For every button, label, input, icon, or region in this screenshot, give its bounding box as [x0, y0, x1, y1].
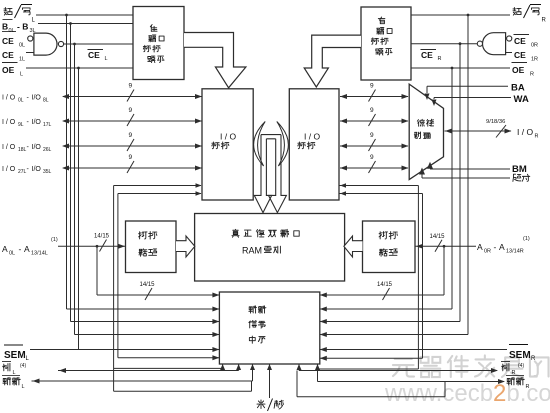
wire row 3 into arbiter right — [320, 321, 460, 323]
center channel top band — [261, 135, 281, 139]
svg-text:14/15: 14/15 — [430, 234, 446, 240]
svg-text:14/15: 14/15 — [94, 234, 110, 240]
svg-text:I/O: I/O — [32, 166, 42, 173]
svg-text:R: R — [535, 134, 539, 140]
svg-text:1R: 1R — [531, 57, 538, 63]
hollow arrow left control to left I/O — [184, 33, 246, 88]
wire A right bus — [415, 245, 476, 247]
wire busy feed into left I/O lower — [118, 193, 201, 195]
right I/O control block — [289, 89, 339, 200]
wire BUSY R — [299, 370, 497, 372]
hollow arrow right control to right I/O — [304, 35, 361, 87]
wire row 4 into arbiter left — [75, 334, 220, 336]
left I/O control block — [202, 89, 253, 200]
wire bottom rail 1 — [114, 390, 252, 392]
svg-text:R: R — [438, 56, 442, 62]
wire INT L riser into arbiter bottom — [252, 364, 254, 381]
svg-text:9: 9 — [370, 154, 374, 161]
svg-text:1L: 1L — [19, 57, 25, 63]
svg-text:17L: 17L — [43, 122, 52, 128]
wire B0L-B3L — [38, 23, 133, 25]
wire CE1L into gate — [26, 52, 34, 54]
svg-text:B: B — [2, 22, 8, 32]
svg-text:9: 9 — [370, 132, 374, 139]
wire rail riser from INT R — [444, 382, 446, 397]
svg-text:26L: 26L — [43, 147, 52, 153]
interrupt signal arbitration block — [219, 292, 319, 364]
svg-text:9: 9 — [129, 132, 133, 139]
svg-text:SEM: SEM — [509, 350, 531, 361]
wire I/O18L-I/O26L bus — [63, 145, 202, 147]
R/W-bar R label — [513, 7, 521, 15]
wire M/S into arbiter bottom — [269, 364, 271, 398]
wire CE-bar L from gate to left control — [64, 43, 133, 45]
svg-text:R: R — [542, 18, 547, 24]
wire CE1R into gate — [506, 52, 512, 54]
svg-text:13/14R: 13/14R — [506, 249, 524, 255]
wire INT R riser into arbiter bottom — [317, 364, 319, 382]
svg-text:0L: 0L — [18, 98, 24, 104]
wire vertical CE L drop — [74, 44, 76, 335]
svg-text:I/O: I/O — [32, 144, 42, 151]
svg-text:I / O: I / O — [2, 144, 16, 151]
svg-text:14/15: 14/15 — [140, 282, 156, 288]
wire right I/O bus row 4 — [340, 167, 408, 169]
wire BUSY L riser into arbiter bottom — [238, 364, 240, 371]
left address decode block — [126, 221, 177, 273]
wire vertical R/W R drop — [467, 15, 469, 335]
wire right wrap row lower to arbiter bottom corner — [318, 368, 419, 370]
svg-text:L: L — [105, 56, 108, 62]
wire vertical OE L drop — [78, 68, 80, 350]
left port control logic block — [133, 7, 184, 80]
wire CE-bar R from gate to right control — [411, 43, 477, 45]
svg-text:WA: WA — [514, 94, 529, 105]
svg-text:A: A — [477, 242, 483, 252]
svg-text:9: 9 — [370, 83, 374, 90]
svg-text:I/O: I/O — [32, 95, 42, 102]
wire vertical OE R drop — [451, 68, 453, 309]
svg-text:A: A — [24, 244, 30, 254]
wire busy feed into left I/O upper — [114, 185, 201, 187]
wire vertical left riser outer — [113, 186, 115, 392]
svg-text:9/18/36: 9/18/36 — [486, 119, 505, 125]
wire right I/O bus row 2 — [340, 120, 408, 122]
svg-text:0L: 0L — [9, 251, 15, 257]
svg-text:13/14L: 13/14L — [31, 251, 48, 257]
wire size — [422, 177, 510, 179]
svg-text:8L: 8L — [43, 98, 49, 104]
svg-text:CE: CE — [514, 50, 526, 60]
svg-text:- B: - B — [17, 22, 28, 32]
wire row 4 into arbiter right — [320, 334, 468, 336]
wire vertical B drop — [70, 24, 72, 322]
right port control logic block — [361, 7, 411, 80]
svg-text:L: L — [20, 72, 23, 78]
svg-text:CE: CE — [514, 36, 526, 46]
wire I/O R with 9/18/36 slash — [445, 130, 512, 132]
svg-text:27L: 27L — [18, 169, 27, 175]
M/S label — [257, 400, 265, 409]
wire vertical right riser outer — [417, 186, 419, 370]
wire SEM L row into arbiter left — [30, 349, 219, 351]
svg-text:CE: CE — [2, 50, 14, 60]
wire row 2 into arbiter left — [67, 308, 220, 310]
wire vertical A L branch — [96, 246, 98, 295]
wire row 2 into arbiter right — [320, 308, 452, 310]
svg-text:I / O: I / O — [517, 127, 533, 137]
wire I/O9L-I/O17L bus — [63, 120, 202, 122]
BUSY L label — [2, 361, 11, 363]
svg-text:I / O: I / O — [220, 132, 236, 142]
wire WA — [434, 97, 511, 99]
svg-text:9: 9 — [370, 107, 374, 114]
svg-text:-: - — [19, 244, 22, 254]
svg-text:0R: 0R — [531, 43, 538, 49]
svg-text:OE: OE — [512, 65, 525, 75]
wire right I/O bus row 1 — [340, 96, 408, 98]
svg-text:A: A — [2, 244, 8, 254]
wire vertical CE R drop — [459, 44, 461, 322]
INT R label — [506, 375, 524, 377]
NAND gate left (CE0L,CE1L) — [34, 33, 57, 55]
hollow arrow right decode to RAM — [344, 236, 363, 257]
wire vertical left riser inner — [117, 194, 119, 358]
svg-text:R: R — [530, 72, 534, 78]
svg-text:(4): (4) — [20, 363, 26, 369]
svg-text:I / O: I / O — [2, 95, 16, 102]
wire right I/O bus row 3 — [340, 145, 408, 147]
wire vertical right riser inner — [422, 194, 424, 359]
wire BUSY L — [58, 370, 239, 372]
svg-text:9: 9 — [129, 107, 133, 114]
wire BM — [430, 168, 510, 170]
wire SEM R row from arbiter right — [320, 349, 507, 351]
svg-text:35L: 35L — [43, 169, 52, 175]
wire vertical R/W L drop — [66, 15, 68, 309]
svg-text:A: A — [499, 242, 505, 252]
svg-text:R: R — [526, 384, 530, 390]
svg-text:9L: 9L — [18, 122, 24, 128]
center hollow down-arrow right channel — [269, 135, 287, 213]
svg-text:CE: CE — [421, 50, 433, 60]
SEM R label — [509, 344, 528, 346]
svg-text:R: R — [531, 356, 536, 362]
svg-text:(1): (1) — [523, 236, 530, 242]
wire address row into arbiter left with 14/15 slash — [97, 294, 219, 296]
svg-text:0L: 0L — [19, 43, 25, 49]
wire INT L — [32, 380, 253, 382]
size label — [513, 174, 521, 181]
wire busy feed into right I/O upper — [339, 185, 418, 187]
svg-text:I / O: I / O — [2, 119, 16, 126]
BUSY R label — [501, 361, 510, 363]
center hollow down-arrow left channel — [254, 135, 271, 213]
wire rail riser to INT L — [251, 381, 253, 391]
right crescent arrow — [277, 122, 289, 167]
bus match mux — [409, 84, 443, 179]
wire R/W R — [411, 14, 510, 16]
wire left wrap row lower to arbiter bottom corner — [114, 367, 223, 369]
wire R/W L — [36, 14, 133, 16]
wire OE R — [411, 67, 510, 69]
svg-text:L: L — [22, 384, 25, 390]
svg-text:(4): (4) — [518, 363, 524, 369]
svg-text:RAM: RAM — [242, 246, 262, 256]
true dual-port RAM array block — [195, 214, 345, 282]
svg-text:BA: BA — [511, 83, 525, 94]
wire rail riser to BUSY R — [296, 371, 298, 397]
wire vertical A R branch — [443, 246, 445, 295]
svg-text:0R: 0R — [484, 249, 491, 255]
svg-text:OE: OE — [2, 65, 15, 75]
svg-text:9: 9 — [129, 154, 133, 161]
svg-text:18L: 18L — [18, 147, 27, 153]
right address decode block — [363, 221, 416, 273]
wire BUSY R riser into arbiter bottom — [298, 364, 300, 371]
wire I/O27L-I/O35L bus — [63, 167, 202, 169]
svg-text:0L: 0L — [9, 28, 15, 34]
NAND gate right (CE0R,CE1R) — [483, 33, 506, 55]
svg-text:-: - — [494, 242, 497, 252]
wire busy feed into right I/O lower — [339, 193, 423, 195]
svg-text:BM: BM — [512, 164, 527, 175]
wire BA — [427, 85, 508, 87]
svg-text:9: 9 — [129, 83, 133, 90]
wire INT R — [318, 381, 505, 383]
svg-text:SEM: SEM — [4, 350, 26, 361]
wire I/O0L-I/O8L bus — [63, 96, 202, 98]
INT L label — [2, 375, 20, 377]
svg-text:I/O: I/O — [32, 119, 42, 126]
wire row 3 into arbiter left — [71, 321, 220, 323]
hollow arrow left decode to RAM — [176, 236, 195, 257]
SEM L label — [4, 344, 23, 346]
svg-text:CE: CE — [2, 36, 14, 46]
left crescent arrow — [254, 122, 266, 167]
svg-text:I / O: I / O — [2, 166, 16, 173]
wire left wrap row upper into arbiter left edge — [118, 357, 219, 359]
svg-text:14/15: 14/15 — [377, 282, 393, 288]
svg-text:I / O: I / O — [304, 132, 320, 142]
wire OE L — [26, 67, 133, 69]
svg-text:(1): (1) — [51, 237, 58, 243]
R/W-bar L label — [4, 7, 12, 15]
wire bottom rail 2 — [297, 396, 445, 398]
svg-text:CE: CE — [88, 50, 100, 60]
wire A left bus — [58, 245, 125, 247]
wire right wrap row upper into arbiter right edge — [320, 357, 423, 359]
watermark 元器件交易网 — [393, 359, 414, 377]
wire address row into arbiter right with 14/15 slash — [320, 294, 444, 296]
